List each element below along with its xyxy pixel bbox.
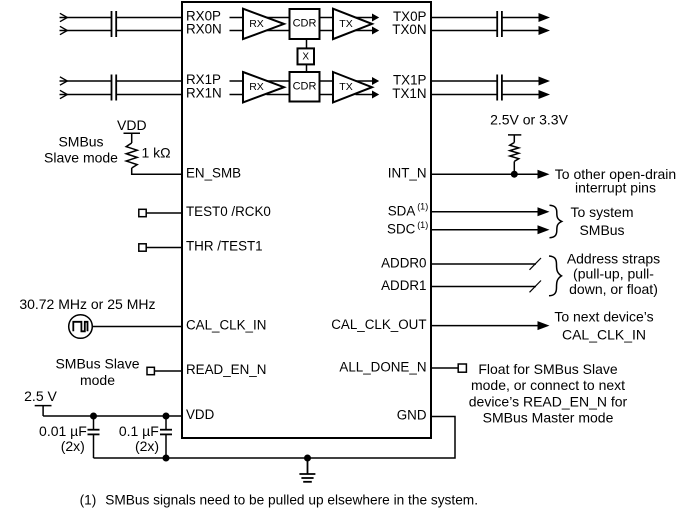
wire RX1 to CDR1 upper <box>267 80 290 82</box>
junction dot INT_N <box>511 171 518 178</box>
svg-text:ADDR1: ADDR1 <box>381 278 426 293</box>
wire CDR0 to X <box>306 39 308 49</box>
arrowhead TX0N external <box>539 26 551 35</box>
amplifier TX1 <box>333 72 372 102</box>
input arrow RX0N <box>60 26 67 34</box>
svg-text:Slave mode: Slave mode <box>44 150 118 166</box>
svg-text:0.01 µF: 0.01 µF <box>39 423 87 439</box>
capacitor C1 0.01uF <box>88 416 100 458</box>
amplifier RX0 <box>243 9 284 39</box>
strap slash ADDR0 <box>530 258 542 270</box>
svg-text:TX1N: TX1N <box>392 86 426 101</box>
svg-text:THR /TEST1: THR /TEST1 <box>186 239 263 254</box>
svg-text:EN_SMB: EN_SMB <box>186 166 241 181</box>
wire X to CDR1 <box>306 64 308 72</box>
wire RX0P input <box>60 17 112 19</box>
supply 2.5V/3.3V T-bar <box>508 135 521 143</box>
svg-text:SDA: SDA <box>388 203 416 218</box>
block CDR0 <box>290 9 320 39</box>
wire RX0 to CDR0 lower <box>267 30 290 32</box>
svg-text:RX: RX <box>249 18 264 30</box>
supply 2.5V T-bar <box>35 406 52 416</box>
wire TX1P external <box>431 80 497 82</box>
svg-text:30.72 MHz or 25 MHz: 30.72 MHz or 25 MHz <box>19 296 155 312</box>
wire SDA <box>431 211 540 213</box>
svg-text:To next device’s: To next device’s <box>554 308 653 324</box>
wire TX0P external <box>431 17 497 19</box>
arrowhead TX1P external <box>539 77 551 86</box>
brace address straps <box>549 256 562 296</box>
wire SDC <box>431 229 540 231</box>
arrowhead TX0N <box>372 27 379 35</box>
wire ADDR1 <box>431 286 536 288</box>
svg-text:(1): (1) <box>80 492 97 507</box>
svg-text:(1): (1) <box>417 202 428 212</box>
svg-text:RX0N: RX0N <box>186 22 222 37</box>
svg-text:(pull-up, pull-: (pull-up, pull- <box>573 266 654 282</box>
svg-text:RX: RX <box>249 81 264 93</box>
svg-text:CAL_CLK_IN: CAL_CLK_IN <box>186 318 266 333</box>
svg-text:CAL_CLK_IN: CAL_CLK_IN <box>562 326 646 342</box>
wire CAL_CLK_OUT <box>431 325 540 327</box>
arrowhead INT_N <box>538 170 550 179</box>
svg-text:INT_N: INT_N <box>388 166 427 181</box>
svg-text:TX: TX <box>339 18 352 30</box>
wire RX0 to CDR0 upper <box>267 17 290 19</box>
svg-text:mode: mode <box>80 372 115 388</box>
wire TX1P out <box>356 80 374 82</box>
wire VDD rail <box>43 415 182 417</box>
wire ADDR0 <box>431 263 536 265</box>
supply VDD T-bar <box>124 133 141 143</box>
pad ALL_DONE_N <box>458 364 466 372</box>
svg-text:CDR: CDR <box>293 81 317 93</box>
svg-text:(2x): (2x) <box>61 438 85 454</box>
pad TEST0 <box>139 209 146 216</box>
wire RX0P stub <box>230 17 244 19</box>
amplifier RX1 <box>243 72 284 102</box>
junction dot C1 top <box>90 413 97 420</box>
wire RX0N stub <box>230 30 244 32</box>
svg-text:To system: To system <box>570 204 633 220</box>
block X crosspoint <box>298 48 315 64</box>
svg-text:SDC: SDC <box>387 221 416 236</box>
wire TEST0 <box>146 212 182 214</box>
svg-text:GND: GND <box>397 408 427 423</box>
strap slash ADDR1 <box>530 281 542 293</box>
svg-text:interrupt pins: interrupt pins <box>575 180 656 196</box>
resistor R1 1 kOhm <box>126 143 137 168</box>
svg-text:1 kΩ: 1 kΩ <box>142 145 171 161</box>
junction dot C2 bottom <box>163 455 170 462</box>
svg-text:2.5 V: 2.5 V <box>24 388 57 404</box>
wire READ_EN_N <box>154 370 182 372</box>
wire TX0P to arrow <box>502 17 540 19</box>
chip U1 outline <box>182 2 431 438</box>
svg-text:SMBus Slave: SMBus Slave <box>55 356 139 372</box>
wire RX0P to chip <box>116 17 182 19</box>
wire TX0N external <box>431 30 497 32</box>
capacitor RX1N coupling <box>112 88 117 101</box>
ground symbol <box>299 458 315 482</box>
junction dot ground <box>304 455 311 462</box>
svg-text:TX0N: TX0N <box>392 22 426 37</box>
svg-text:X: X <box>302 51 309 62</box>
wire TX0N out <box>356 30 374 32</box>
wire TX1N to arrow <box>502 94 540 96</box>
svg-text:down, or float): down, or float) <box>569 281 658 297</box>
wire RX0N input <box>60 30 112 32</box>
wire oscillator to CAL_CLK_IN <box>92 326 182 328</box>
input arrow RX0P <box>60 13 67 21</box>
arrowhead TX1N external <box>539 90 551 99</box>
junction dot C2 top <box>163 413 170 420</box>
svg-text:2.5V or 3.3V: 2.5V or 3.3V <box>490 112 568 128</box>
wire RX1P stub <box>230 80 244 82</box>
svg-text:VDD: VDD <box>117 117 147 133</box>
capacitor TX1P coupling <box>497 75 502 88</box>
brace SMBus <box>550 205 562 237</box>
svg-text:SMBus signals need to be pulle: SMBus signals need to be pulled up elsew… <box>105 492 478 507</box>
wire CDR1 to TX1 upper <box>320 80 334 82</box>
svg-text:TX: TX <box>339 81 352 93</box>
input arrow RX1N <box>60 90 67 98</box>
capacitor TX1N coupling <box>497 88 502 101</box>
capacitor RX0N coupling <box>112 24 117 37</box>
wire CDR1 to TX1 lower <box>320 94 334 96</box>
capacitor TX0N coupling <box>497 24 502 37</box>
svg-text:TEST0 /RCK0: TEST0 /RCK0 <box>186 204 271 219</box>
capacitor RX0P coupling <box>112 11 117 24</box>
svg-text:device’s READ_EN_N for: device’s READ_EN_N for <box>469 393 628 409</box>
svg-text:SMBus: SMBus <box>58 134 103 150</box>
svg-text:VDD: VDD <box>186 407 215 422</box>
wire TX1N out <box>356 94 374 96</box>
wire RX1P to chip <box>116 80 182 82</box>
arrowhead CAL_CLK_OUT <box>538 321 550 330</box>
arrowhead TX1P <box>372 77 379 85</box>
arrowhead TX0P <box>372 14 379 22</box>
svg-text:Float for SMBus Slave: Float for SMBus Slave <box>478 361 617 377</box>
svg-text:(1): (1) <box>417 220 428 230</box>
svg-text:ALL_DONE_N: ALL_DONE_N <box>339 360 426 375</box>
svg-text:mode, or connect to next: mode, or connect to next <box>471 377 625 393</box>
capacitor C2 0.1uF <box>160 416 172 458</box>
wire INT_N <box>431 173 540 175</box>
input arrow RX1P <box>60 77 67 85</box>
svg-text:CDR: CDR <box>293 18 317 30</box>
svg-text:READ_EN_N: READ_EN_N <box>186 362 266 377</box>
wire THR <box>146 247 182 249</box>
arrowhead SDA <box>538 207 550 216</box>
oscillator symbol <box>69 315 93 339</box>
wire CDR0 to TX0 lower <box>320 30 334 32</box>
arrowhead TX0P external <box>539 13 551 22</box>
capacitor RX1P coupling <box>112 75 117 88</box>
wire TX1P to arrow <box>502 80 540 82</box>
resistor R2 pullup <box>510 143 519 162</box>
wire ALL_DONE_N <box>431 367 458 369</box>
wire TX1N external <box>431 94 497 96</box>
svg-text:RX1N: RX1N <box>186 86 222 101</box>
svg-text:ADDR0: ADDR0 <box>381 256 426 271</box>
amplifier TX0 <box>333 9 372 39</box>
wire RX1N stub <box>230 94 244 96</box>
svg-text:(2x): (2x) <box>135 438 159 454</box>
capacitor TX0P coupling <box>497 11 502 24</box>
wire RX0N to chip <box>116 30 182 32</box>
svg-text:CAL_CLK_OUT: CAL_CLK_OUT <box>331 317 426 332</box>
pad READ_EN_N <box>147 367 154 374</box>
pad THR <box>139 244 146 251</box>
wire TX0N to arrow <box>502 30 540 32</box>
block CDR1 <box>290 72 320 102</box>
svg-text:Address straps: Address straps <box>567 250 660 266</box>
svg-text:SMBus: SMBus <box>579 222 624 238</box>
arrowhead TX1N <box>372 91 379 99</box>
wire ground rail <box>94 417 456 459</box>
wire R2 to INT_N node <box>513 161 515 174</box>
wire RX1N to chip <box>116 94 182 96</box>
svg-text:0.1 µF: 0.1 µF <box>119 423 159 439</box>
svg-text:SMBus Master mode: SMBus Master mode <box>483 409 614 425</box>
wire TX0P out <box>356 17 374 19</box>
wire RX1P input <box>60 80 112 82</box>
wire RX1 to CDR1 lower <box>267 94 290 96</box>
arrowhead SDC <box>538 225 550 234</box>
wire CDR0 to TX0 upper <box>320 17 334 19</box>
wire R1 to EN_SMB <box>132 168 182 174</box>
wire RX1N input <box>60 94 112 96</box>
